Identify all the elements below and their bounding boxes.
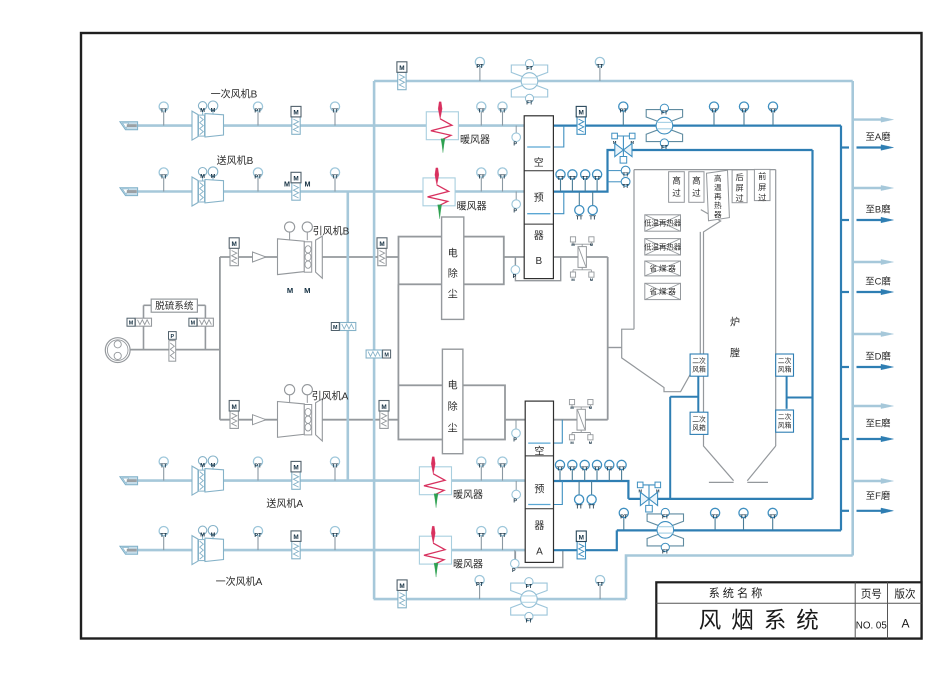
svg-text:器: 器 bbox=[714, 210, 722, 219]
instrument TT heater-out-1 B125.6 bbox=[480, 111, 482, 125]
windbox 二次风箱 UR bbox=[776, 354, 794, 376]
fan 一次风机A bbox=[192, 536, 198, 565]
svg-text:A: A bbox=[901, 617, 909, 631]
svg-text:电: 电 bbox=[448, 378, 458, 391]
instrument TT duct A480.6 bbox=[334, 466, 336, 480]
svg-text:M: M bbox=[399, 65, 404, 72]
svg-text:FT: FT bbox=[526, 619, 533, 625]
air inlet funnel 3 bbox=[120, 477, 138, 485]
svg-text:过: 过 bbox=[692, 187, 701, 198]
wire windbox left manifold bbox=[670, 396, 698, 398]
svg-text:热: 热 bbox=[714, 200, 722, 210]
wire cold PA mill header bbox=[851, 81, 854, 556]
instrument TT heater-out-2 A550.1 bbox=[502, 536, 504, 550]
ESP-A 电除尘 casing bbox=[398, 385, 505, 439]
svg-text:M: M bbox=[191, 321, 196, 327]
instrument TT hot PA B bbox=[743, 111, 745, 125]
wire hot PA mill riser bbox=[840, 126, 842, 531]
svg-text:低温再热器: 低温再热器 bbox=[644, 219, 682, 228]
svg-text:风箱: 风箱 bbox=[778, 365, 792, 374]
svg-text:TT: TT bbox=[582, 176, 589, 182]
svg-text:M: M bbox=[200, 108, 205, 114]
wire windbox right manifold bbox=[787, 397, 813, 399]
instrument TT inlet B125.6 bbox=[163, 111, 165, 125]
svg-text:版次: 版次 bbox=[894, 588, 916, 601]
wire APH-B bypass duct bbox=[515, 257, 560, 281]
valve M bottom header bbox=[398, 590, 406, 607]
svg-text:M: M bbox=[232, 241, 237, 248]
instrument TT hot PA B bbox=[713, 111, 715, 125]
instrument TT hot PA B bbox=[772, 111, 774, 125]
windbox 二次风箱 UL bbox=[690, 354, 708, 376]
svg-text:PT: PT bbox=[476, 64, 484, 70]
valve M ESP-B inlet bbox=[378, 248, 386, 265]
svg-text:M: M bbox=[211, 463, 216, 469]
svg-text:M: M bbox=[200, 174, 205, 180]
svg-text:至A磨: 至A磨 bbox=[865, 131, 891, 142]
svg-text:M: M bbox=[293, 110, 298, 117]
svg-text:M: M bbox=[579, 110, 584, 117]
instrument P bbox=[514, 257, 516, 266]
svg-text:送风机B: 送风机B bbox=[217, 154, 254, 167]
svg-text:TT: TT bbox=[711, 108, 718, 114]
svg-text:TT: TT bbox=[478, 533, 485, 539]
heater 暖风器 B2 bbox=[423, 178, 455, 206]
svg-text:除: 除 bbox=[448, 267, 458, 280]
svg-text:风箱: 风箱 bbox=[778, 421, 792, 430]
svg-text:引风机A: 引风机A bbox=[312, 390, 349, 403]
instrument P bbox=[515, 481, 517, 490]
svg-text:P: P bbox=[512, 568, 516, 574]
fan 送风机A bbox=[192, 466, 198, 495]
instrument TT SA riser 1 bbox=[608, 170, 622, 172]
instrument TT APH-B out bbox=[571, 179, 573, 192]
wire APH-A bypass duct bbox=[515, 550, 562, 567]
instrument TT heater-out-2 B125.6 bbox=[502, 111, 504, 125]
svg-text:TT: TT bbox=[332, 463, 339, 469]
svg-text:膛: 膛 bbox=[730, 347, 740, 360]
svg-text:一次风机A: 一次风机A bbox=[216, 575, 263, 588]
svg-text:TT: TT bbox=[499, 463, 506, 469]
svg-text:TT: TT bbox=[478, 174, 485, 180]
svg-text:器: 器 bbox=[534, 230, 544, 242]
svg-text:一次风机B: 一次风机B bbox=[211, 88, 258, 101]
svg-text:TT: TT bbox=[332, 174, 339, 180]
svg-text:M: M bbox=[384, 352, 389, 358]
superheater 高过 1 bbox=[669, 172, 685, 203]
wire APH-A seal bracket 1 bbox=[554, 420, 563, 443]
svg-text:器: 器 bbox=[534, 520, 544, 532]
svg-text:暖风器: 暖风器 bbox=[453, 488, 483, 501]
ESP-B 电除尘 column bbox=[442, 217, 464, 319]
svg-text:引风机B: 引风机B bbox=[313, 225, 350, 238]
svg-text:高: 高 bbox=[672, 175, 681, 186]
mill outlet 至B磨 bbox=[853, 187, 881, 189]
svg-text:PT: PT bbox=[254, 463, 262, 469]
svg-text:TT: TT bbox=[499, 533, 506, 539]
svg-text:A: A bbox=[536, 547, 543, 558]
instrument PT bottom header bbox=[479, 585, 481, 599]
svg-text:P: P bbox=[513, 437, 517, 443]
svg-text:烟: 烟 bbox=[731, 608, 754, 633]
wire windbox main riser bbox=[669, 397, 671, 499]
wire FD air line A (line3) bbox=[138, 479, 526, 482]
svg-text:M: M bbox=[129, 321, 134, 327]
flow element FT hot PA A bbox=[647, 514, 683, 525]
svg-text:TT: TT bbox=[596, 64, 603, 70]
svg-text:M: M bbox=[211, 533, 216, 539]
svg-text:屏: 屏 bbox=[735, 183, 743, 192]
svg-text:B: B bbox=[535, 256, 542, 267]
svg-text:过: 过 bbox=[758, 192, 766, 202]
wire APH-B seal bracket 2 bbox=[553, 192, 563, 214]
svg-text:FT: FT bbox=[662, 515, 669, 521]
border frame bbox=[81, 33, 922, 639]
heater 暖风器 B1 bbox=[426, 112, 458, 140]
svg-text:暖风器: 暖风器 bbox=[460, 133, 490, 146]
wire FGD left branch bbox=[143, 305, 145, 349]
instrument TT inlet A550.1 bbox=[163, 536, 165, 550]
wire windbox right drop bbox=[786, 376, 788, 409]
svg-text:TT: TT bbox=[569, 467, 576, 473]
svg-text:屏: 屏 bbox=[758, 183, 766, 192]
svg-text:预: 预 bbox=[534, 483, 544, 495]
svg-text:TT: TT bbox=[332, 108, 339, 114]
svg-text:TT: TT bbox=[332, 533, 339, 539]
gas damper APH-B outlet bbox=[578, 247, 586, 268]
svg-text:M: M bbox=[293, 176, 298, 183]
wire economizer outlet stub bbox=[608, 347, 622, 349]
instrument PT fan B125.6 bbox=[257, 111, 259, 125]
svg-text:除: 除 bbox=[448, 400, 458, 413]
wire ESP interpass duct bbox=[397, 284, 399, 385]
fan 引风机B bbox=[278, 239, 305, 275]
wire ESP-B to fan-B duct bbox=[322, 256, 398, 258]
svg-text:M: M bbox=[579, 534, 584, 541]
instrument TT APH-B out bbox=[596, 179, 598, 192]
reheater 高温再热器 bbox=[707, 170, 730, 221]
svg-text:TT: TT bbox=[740, 515, 747, 521]
svg-text:至F磨: 至F磨 bbox=[866, 490, 891, 501]
title block 风烟系统 bbox=[656, 582, 921, 638]
fan 送风机B bbox=[192, 177, 198, 206]
air inlet funnel 2 bbox=[120, 188, 138, 196]
valve M line B191.5 bbox=[292, 183, 300, 200]
svg-text:TT: TT bbox=[160, 108, 167, 114]
wire ID-fan-B discharge header bbox=[219, 257, 221, 420]
instrument TT heater-out-2 B191.5 bbox=[502, 177, 504, 191]
instrument TT APH-A out bbox=[571, 470, 573, 482]
instrument TT heater-out-2 A480.6 bbox=[502, 466, 504, 480]
valve M fan-A discharge bbox=[230, 411, 238, 428]
flow element FT top header bbox=[511, 65, 547, 76]
svg-text:FT: FT bbox=[526, 584, 533, 590]
svg-text:TT: TT bbox=[589, 215, 596, 221]
svg-text:二次: 二次 bbox=[692, 356, 706, 365]
wire ID-fan-B suction line bbox=[220, 256, 278, 258]
svg-text:TT: TT bbox=[576, 215, 583, 221]
air preheater 空预器B bbox=[524, 116, 553, 279]
svg-text:PT: PT bbox=[254, 108, 262, 114]
instrument TT SA riser 2 bbox=[608, 181, 622, 183]
valve M hot PA B bbox=[577, 117, 585, 134]
svg-text:电: 电 bbox=[448, 247, 458, 260]
svg-text:P: P bbox=[513, 141, 517, 147]
FGD 脱硫系统 box bbox=[151, 299, 197, 312]
svg-text:PT: PT bbox=[254, 533, 262, 539]
svg-text:风箱: 风箱 bbox=[692, 365, 706, 374]
wire APH-B seal bracket 1 bbox=[553, 126, 563, 147]
gas damper APH-A inlet bbox=[577, 409, 585, 430]
svg-text:页号: 页号 bbox=[861, 589, 882, 601]
instrument TT APH-A out low bbox=[591, 481, 593, 495]
ESP-A 电除尘 column bbox=[442, 349, 463, 454]
svg-text:FT: FT bbox=[526, 101, 533, 107]
valve M left header bbox=[366, 350, 382, 358]
instrument TT APH-B out low bbox=[578, 192, 580, 206]
svg-text:预: 预 bbox=[534, 192, 544, 204]
svg-text:温: 温 bbox=[714, 183, 722, 192]
svg-text:尘: 尘 bbox=[448, 422, 458, 434]
svg-text:TT: TT bbox=[557, 176, 564, 182]
svg-text:过: 过 bbox=[735, 193, 743, 203]
instrument TT heater-out-1 B191.5 bbox=[480, 177, 482, 191]
instrument TT inlet A480.6 bbox=[163, 466, 165, 480]
valve P stack line bbox=[169, 332, 177, 340]
flow element FT hot PA B bbox=[646, 110, 682, 121]
stack 烟囱 bbox=[105, 338, 130, 363]
svg-text:炉: 炉 bbox=[730, 317, 740, 329]
wire ID-fan-A suction line bbox=[220, 419, 278, 421]
ESP-B 电除尘 casing bbox=[399, 237, 504, 285]
svg-text:TT: TT bbox=[478, 463, 485, 469]
instrument TT hot PA A bbox=[714, 518, 716, 530]
valve M ESP-A inlet bbox=[380, 411, 388, 428]
svg-text:PT: PT bbox=[476, 582, 484, 588]
svg-text:M: M bbox=[293, 534, 298, 541]
svg-text:脱硫系统: 脱硫系统 bbox=[155, 300, 194, 312]
instrument PT fan B191.5 bbox=[257, 177, 259, 191]
svg-text:NO. 05: NO. 05 bbox=[856, 621, 888, 632]
valve M line B125.6 bbox=[292, 117, 300, 134]
flow cone fan B bbox=[253, 252, 267, 262]
wire cold PA top header bbox=[374, 80, 853, 83]
svg-text:M: M bbox=[232, 404, 237, 411]
mill outlet 至F磨 bbox=[853, 480, 881, 482]
reheater 低温再热器 2 bbox=[645, 239, 681, 255]
svg-text:至D磨: 至D磨 bbox=[865, 351, 891, 362]
windbox 二次风箱 LR bbox=[776, 410, 794, 432]
svg-text:M: M bbox=[287, 286, 293, 295]
valve M FGD left bbox=[136, 318, 152, 326]
svg-text:M: M bbox=[211, 174, 216, 180]
svg-text:至E磨: 至E磨 bbox=[865, 418, 891, 429]
svg-text:M: M bbox=[200, 463, 205, 469]
economizer 省煤器 2 bbox=[645, 283, 681, 299]
air preheater 空预器A bbox=[525, 401, 553, 562]
wire hot PA elbow A bbox=[553, 530, 617, 550]
instrument TT APH-B out low bbox=[592, 192, 594, 206]
svg-text:PT: PT bbox=[620, 108, 628, 114]
wire cold PA left header bbox=[373, 81, 376, 599]
fan 引风机A bbox=[278, 402, 305, 438]
svg-text:TT: TT bbox=[160, 533, 167, 539]
svg-text:TT: TT bbox=[769, 515, 776, 521]
svg-text:M: M bbox=[379, 241, 384, 248]
wire ESP-B outlet to APH-B bbox=[504, 256, 524, 258]
valve M fan-B discharge bbox=[230, 248, 238, 265]
svg-text:P: P bbox=[513, 499, 517, 505]
valve M FGD right bbox=[197, 318, 213, 326]
superheater 高过 2 bbox=[689, 172, 704, 203]
svg-text:M: M bbox=[381, 404, 386, 411]
mill outlet 至C磨 bbox=[853, 261, 881, 263]
instrument TT APH-B out bbox=[560, 179, 562, 192]
superheater 前屏过 bbox=[754, 169, 770, 200]
svg-text:FT: FT bbox=[661, 110, 668, 116]
instrument TT APH-B out bbox=[584, 179, 586, 192]
svg-text:后: 后 bbox=[735, 172, 743, 182]
svg-text:P: P bbox=[513, 274, 517, 280]
mill outlet 至A磨 bbox=[853, 118, 881, 120]
instrument TT duct A550.1 bbox=[334, 536, 336, 550]
svg-text:省 煤 器: 省 煤 器 bbox=[650, 287, 677, 296]
fan 一次风机B bbox=[192, 111, 198, 140]
instrument P bbox=[515, 420, 517, 429]
wire ESP-A to fan-A duct bbox=[322, 419, 398, 421]
svg-text:高: 高 bbox=[692, 175, 701, 186]
svg-text:TT: TT bbox=[618, 467, 625, 473]
instrument P bbox=[515, 126, 517, 133]
instrument TT hot PA A bbox=[772, 518, 774, 530]
svg-text:TT: TT bbox=[712, 515, 719, 521]
svg-text:TT: TT bbox=[622, 184, 629, 190]
instrument TT APH-A out bbox=[621, 470, 623, 482]
instrument TT inlet B191.5 bbox=[163, 177, 165, 191]
instrument TT heater-out-1 A480.6 bbox=[480, 466, 482, 480]
wire APH-A seal bracket 2 bbox=[554, 481, 563, 505]
butterfly valve SA B bbox=[622, 136, 624, 150]
svg-text:暖风器: 暖风器 bbox=[453, 558, 483, 571]
svg-text:TT: TT bbox=[499, 174, 506, 180]
instrument TT bottom header bbox=[599, 585, 601, 599]
svg-text:FT: FT bbox=[662, 550, 669, 556]
svg-text:M: M bbox=[211, 108, 216, 114]
instrument PT hot PA B bbox=[622, 111, 624, 125]
valve M top header bbox=[398, 72, 406, 89]
svg-text:FT: FT bbox=[661, 145, 668, 151]
svg-text:TT: TT bbox=[581, 467, 588, 473]
instrument PT top header bbox=[479, 67, 481, 81]
svg-text:二次: 二次 bbox=[692, 414, 706, 423]
svg-text:TT: TT bbox=[606, 467, 613, 473]
wire SA cross-tie bbox=[628, 498, 812, 500]
svg-text:尘: 尘 bbox=[448, 289, 458, 301]
wire APH-A gas inlet duct bbox=[554, 419, 608, 421]
economizer 省煤器 1 bbox=[645, 261, 681, 276]
wire hot PA header A bbox=[617, 529, 841, 531]
wire FD cross-tie bbox=[346, 192, 349, 481]
wire boiler gas downcomer bbox=[607, 257, 609, 420]
instrument TT APH-A out bbox=[608, 470, 610, 482]
wire windbox left drop bbox=[697, 376, 699, 412]
svg-text:TT: TT bbox=[741, 108, 748, 114]
svg-text:低温再热器: 低温再热器 bbox=[644, 242, 682, 251]
svg-text:系: 系 bbox=[764, 608, 787, 633]
instrument TT top header bbox=[599, 67, 601, 81]
wire FGD stack line bbox=[130, 349, 220, 351]
valve M line A480.6 bbox=[292, 472, 300, 489]
svg-text:TT: TT bbox=[557, 467, 564, 473]
svg-text:TT: TT bbox=[499, 108, 506, 114]
svg-text:暖风器: 暖风器 bbox=[457, 199, 487, 212]
instrument TT hot PA A bbox=[743, 518, 745, 530]
svg-text:至B磨: 至B磨 bbox=[865, 203, 891, 214]
svg-text:TT: TT bbox=[597, 582, 604, 588]
instrument TT duct B125.6 bbox=[334, 111, 336, 125]
svg-text:TT: TT bbox=[594, 176, 601, 182]
mill outlet 至E磨 bbox=[853, 405, 881, 407]
svg-text:至C磨: 至C磨 bbox=[865, 276, 891, 287]
svg-text:TT: TT bbox=[594, 467, 601, 473]
svg-text:前: 前 bbox=[758, 171, 766, 181]
svg-text:二次: 二次 bbox=[778, 412, 792, 421]
flow cone fan A bbox=[253, 415, 267, 425]
instrument TT APH-A out bbox=[596, 470, 598, 482]
svg-text:风: 风 bbox=[699, 608, 722, 633]
svg-text:过: 过 bbox=[672, 187, 681, 198]
svg-text:二次: 二次 bbox=[778, 356, 792, 365]
svg-text:M: M bbox=[284, 179, 290, 188]
svg-text:M: M bbox=[305, 179, 311, 188]
svg-text:TT: TT bbox=[478, 108, 485, 114]
reheater 低温再热器 1 bbox=[645, 215, 681, 231]
svg-text:省 煤 器: 省 煤 器 bbox=[650, 264, 677, 273]
svg-text:高: 高 bbox=[714, 173, 722, 183]
wire SA downcomer bbox=[811, 150, 813, 499]
windbox 二次风箱 LL bbox=[690, 412, 708, 434]
boiler 炉膛 outline bbox=[634, 169, 776, 171]
svg-text:再: 再 bbox=[714, 192, 722, 201]
svg-text:系统名称: 系统名称 bbox=[709, 586, 766, 600]
svg-text:M: M bbox=[293, 465, 298, 472]
svg-text:TT: TT bbox=[770, 108, 777, 114]
wire cold PA bottom riser bbox=[626, 556, 853, 600]
svg-text:PT: PT bbox=[620, 515, 628, 521]
svg-text:风箱: 风箱 bbox=[692, 423, 706, 432]
svg-text:M: M bbox=[304, 286, 310, 295]
valve M hot PA A bbox=[577, 542, 585, 559]
svg-text:空: 空 bbox=[534, 156, 544, 169]
svg-text:M: M bbox=[200, 533, 205, 539]
instrument TT APH-A out bbox=[559, 470, 561, 482]
svg-text:M: M bbox=[333, 325, 338, 331]
svg-text:P: P bbox=[513, 208, 517, 214]
wire FD air line B (line2) bbox=[138, 190, 525, 193]
svg-text:送风机A: 送风机A bbox=[266, 497, 303, 510]
instrument P bbox=[514, 550, 516, 559]
heater 暖风器 A1 bbox=[419, 467, 451, 495]
instrument PT hot PA A bbox=[623, 518, 625, 530]
wire hot SA line A bbox=[554, 481, 629, 499]
svg-text:TT: TT bbox=[160, 174, 167, 180]
wire APH-A to ESP-A duct bbox=[505, 419, 525, 421]
instrument TT APH-A out low bbox=[578, 481, 580, 495]
svg-text:TT: TT bbox=[588, 505, 595, 511]
svg-text:TT: TT bbox=[569, 176, 576, 182]
svg-text:P: P bbox=[170, 334, 174, 340]
svg-text:M: M bbox=[399, 583, 404, 590]
